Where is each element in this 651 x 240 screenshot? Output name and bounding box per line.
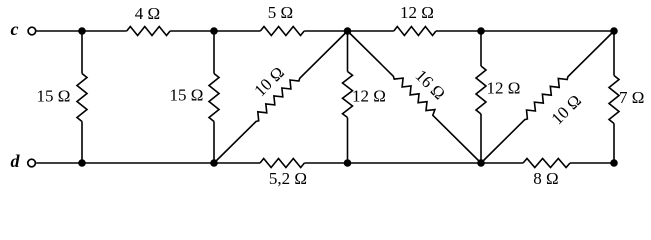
- resistor 15 ohm (vertical, column 1): [37, 31, 87, 163]
- svg-text:12 Ω: 12 Ω: [400, 3, 434, 22]
- wire: terminal c to node T1: [37, 30, 83, 32]
- resistor 7 ohm (vertical, column 5): [609, 31, 644, 163]
- svg-text:5 Ω: 5 Ω: [268, 3, 293, 22]
- wire: top rail node T4 to node T5: [481, 30, 614, 32]
- junction node T2: [210, 27, 218, 35]
- junction node B5: [610, 159, 618, 167]
- resistor 10 ohm (diagonal B2 to T3): [214, 31, 348, 163]
- resistor 12 ohm (vertical, column 4): [476, 31, 520, 163]
- junction node B2: [210, 159, 218, 167]
- resistor 8 ohm (bottom, B4-B5): [481, 159, 614, 189]
- svg-text:7 Ω: 7 Ω: [619, 88, 644, 107]
- resistor 10 ohm (diagonal B4 to T5): [481, 31, 614, 163]
- resistor 16 ohm (diagonal T3 to B4): [348, 31, 482, 163]
- wire: bottom rail node B3 to node B4: [348, 162, 482, 164]
- terminal c: [11, 19, 36, 39]
- svg-text:12 Ω: 12 Ω: [487, 79, 521, 98]
- resistor 5 ohm (top, T2-T3): [214, 3, 348, 36]
- wire: bottom rail node B1 to node B2: [82, 162, 214, 164]
- svg-text:15 Ω: 15 Ω: [170, 86, 204, 105]
- resistor 5,2 ohm (bottom, B2-B3): [214, 159, 348, 189]
- resistor 12 ohm (vertical, column 3): [343, 31, 386, 163]
- junction node B1: [78, 159, 86, 167]
- junction node B4: [477, 159, 485, 167]
- junction node T4: [477, 27, 485, 35]
- junction node T1: [78, 27, 86, 35]
- svg-text:d: d: [11, 151, 21, 171]
- resistor 4 ohm (top, T1-T2): [82, 4, 214, 36]
- resistor 12 ohm (top, T3-T4): [348, 3, 482, 36]
- junction node T5: [610, 27, 618, 35]
- resistor 15 ohm (vertical, column 2): [170, 31, 219, 163]
- svg-text:4 Ω: 4 Ω: [135, 4, 160, 23]
- wire: terminal d to node B1: [36, 162, 82, 164]
- junction node T3: [344, 27, 352, 35]
- terminal d: [11, 151, 36, 171]
- junction node B3: [344, 159, 352, 167]
- svg-text:15 Ω: 15 Ω: [37, 87, 71, 106]
- svg-text:c: c: [11, 19, 19, 39]
- svg-text:8 Ω: 8 Ω: [533, 169, 558, 188]
- svg-text:12 Ω: 12 Ω: [352, 87, 386, 106]
- svg-text:5,2 Ω: 5,2 Ω: [269, 169, 307, 188]
